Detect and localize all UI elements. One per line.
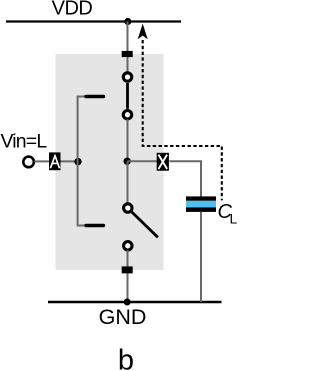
- node: output junction dot: [124, 158, 131, 165]
- CL label: [218, 201, 238, 227]
- marker X box: [157, 153, 169, 171]
- wire: input terminal to A marker: [34, 160, 50, 162]
- GND rail: [48, 301, 222, 303]
- pMOS switch closed blade: [126, 83, 129, 109]
- node: VDD junction dot: [124, 18, 131, 25]
- svg-text:L: L: [230, 211, 238, 227]
- node: GND junction dot: [124, 299, 131, 306]
- nMOS switch top contact circle: [124, 204, 132, 212]
- marker A box: [49, 152, 61, 170]
- capacitor CL dielectric: [186, 201, 216, 208]
- wire: nMOS switch to terminal square: [127, 250, 129, 266]
- arrowhead of charging current: [138, 24, 148, 40]
- pMOS gate bar: [86, 95, 104, 98]
- nMOS gate bar: [86, 224, 104, 227]
- node: gate junction dot: [74, 158, 81, 165]
- wire: square to GND rail: [127, 273, 129, 302]
- wire: capacitor to GND rail: [200, 212, 202, 302]
- wire: output node to X marker: [128, 160, 159, 162]
- svg-text:Vin=L: Vin=L: [1, 131, 48, 153]
- wire: square to pMOS switch: [127, 57, 129, 73]
- wire: X marker to capacitor: [169, 161, 201, 196]
- svg-text:b: b: [118, 345, 134, 371]
- pMOS terminal square: [122, 51, 133, 57]
- input terminal circle: [23, 157, 34, 168]
- nMOS terminal square: [122, 266, 133, 273]
- nMOS switch open blade: [131, 211, 158, 237]
- charging current dashed path: [143, 40, 222, 200]
- pMOS switch bottom contact circle: [123, 111, 131, 119]
- nMOS switch bottom contact circle: [124, 242, 132, 250]
- svg-text:GND: GND: [99, 305, 147, 329]
- capacitor CL top plate: [186, 196, 216, 200]
- gray device body: [56, 54, 164, 270]
- wire: A marker to gate node: [61, 160, 78, 162]
- svg-text:VDD: VDD: [52, 0, 93, 20]
- capacitor CL bottom plate: [186, 207, 216, 212]
- wire: output node down to nMOS switch: [127, 161, 129, 203]
- pMOS switch top contact circle: [123, 73, 131, 81]
- wire: VDD to pMOS terminal square: [127, 22, 129, 52]
- wire: pMOS switch to output node: [127, 119, 129, 161]
- gate vertical wire: [78, 97, 86, 226]
- VDD rail: [6, 20, 181, 22]
